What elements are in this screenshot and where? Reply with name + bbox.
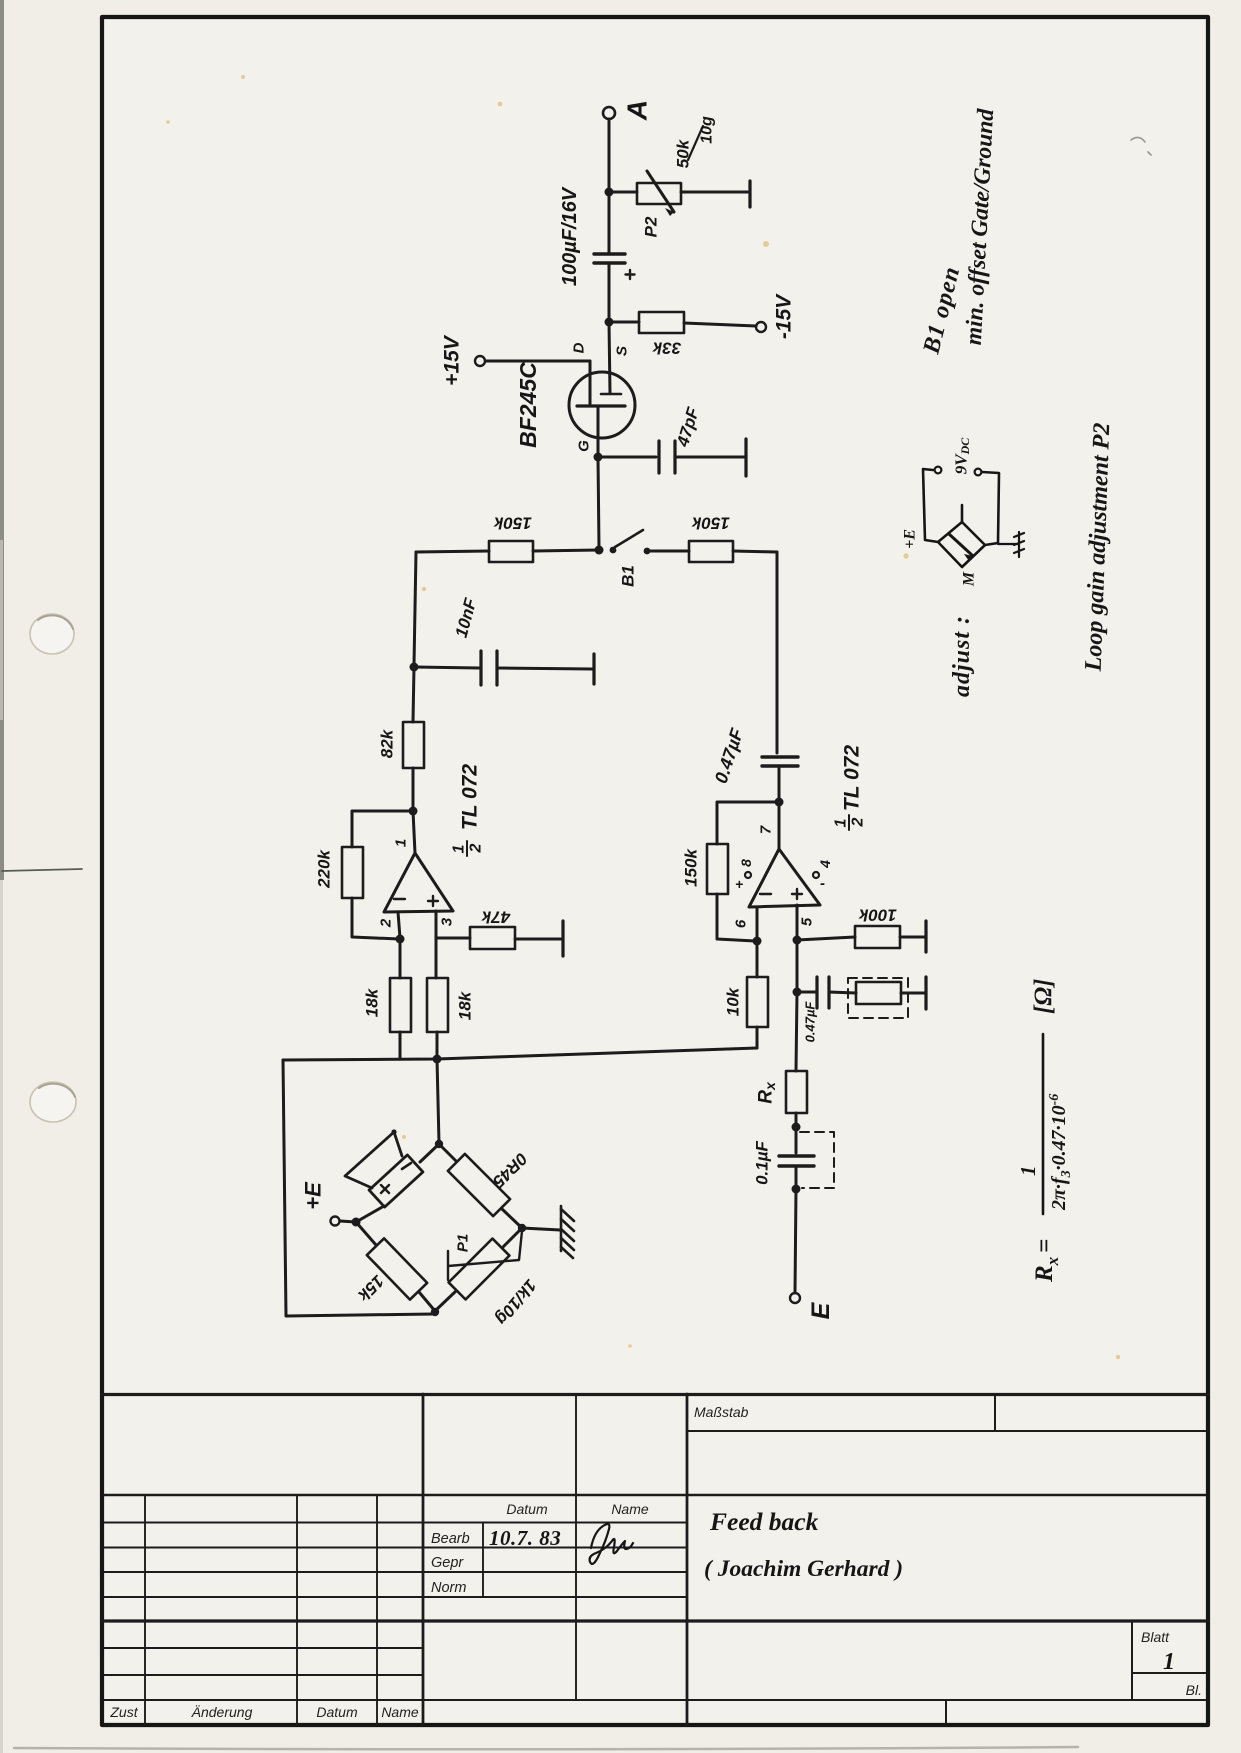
svg-text:Datum: Datum — [506, 1501, 548, 1517]
resistor 82k — [403, 722, 424, 768]
op-amp U2 — [749, 849, 820, 907]
ground bar 100k — [924, 921, 927, 952]
wire — [608, 119, 611, 190]
wire outer loop — [283, 1060, 434, 1316]
resistor 100k — [855, 926, 900, 948]
node bridge top — [435, 1140, 443, 1148]
svg-text:Blatt: Blatt — [1141, 1629, 1170, 1645]
resistor 0R45 — [448, 1154, 510, 1216]
capacitor 0.47uF optional — [815, 977, 818, 1008]
svg-text:10k: 10k — [724, 986, 743, 1016]
ground bar optional — [924, 977, 927, 1009]
svg-text:2π·f3·0.47·10-6: 2π·f3·0.47·10-6 — [1047, 1094, 1074, 1211]
svg-text:-: - — [820, 875, 825, 892]
wire — [609, 321, 639, 324]
wire — [756, 941, 759, 977]
resistor Rx — [786, 1071, 807, 1113]
svg-text:Name: Name — [381, 1704, 419, 1720]
wire — [756, 1027, 759, 1048]
node bridge bottom — [431, 1308, 439, 1316]
wire — [609, 191, 637, 194]
svg-text:5: 5 — [799, 917, 816, 926]
sensor element — [369, 1155, 423, 1207]
node junction — [410, 663, 419, 672]
svg-text:Name: Name — [611, 1501, 649, 1517]
svg-text:47k: 47k — [480, 908, 511, 927]
svg-text:G: G — [576, 440, 593, 452]
svg-text:B1: B1 — [619, 565, 638, 587]
svg-text:0.47µF: 0.47µF — [803, 1001, 818, 1043]
resistor 10k — [747, 977, 768, 1027]
svg-text:Maßstab: Maßstab — [694, 1404, 749, 1420]
ground bar 47pF — [744, 439, 747, 476]
svg-text:8: 8 — [738, 859, 754, 867]
svg-text:TL 072: TL 072 — [459, 764, 482, 830]
svg-text:82k: 82k — [378, 728, 397, 758]
TITLEBLOCK — [102, 1394, 1208, 1724]
op-amp U1 — [384, 853, 453, 912]
punch hole bottom — [30, 1082, 76, 1122]
node junction — [792, 1185, 801, 1194]
bridge 15k arm wire — [356, 1222, 435, 1311]
svg-text:7: 7 — [758, 825, 775, 834]
svg-text:Norm: Norm — [431, 1580, 466, 1596]
wire feedback U1 — [352, 811, 413, 847]
wire — [901, 992, 924, 995]
wire — [684, 323, 756, 326]
wire loop — [923, 469, 938, 542]
wire — [416, 551, 489, 552]
node junction U2 out — [775, 798, 784, 807]
formula Rx — [1016, 979, 1074, 1283]
wire — [795, 1189, 796, 1293]
svg-text:18k: 18k — [363, 987, 382, 1017]
wire — [598, 456, 656, 459]
bridge sensor arm wire — [356, 1144, 439, 1222]
wire — [829, 992, 856, 993]
wire — [608, 263, 611, 320]
wire feedback U2 — [717, 802, 779, 844]
wire — [797, 991, 815, 994]
wire — [795, 1113, 798, 1126]
svg-text:+: + — [735, 876, 743, 892]
ground bar 47k — [561, 921, 564, 956]
resistor 150k right — [689, 541, 733, 562]
svg-text:Zust: Zust — [109, 1704, 138, 1720]
wire — [900, 936, 924, 939]
node junction — [433, 1055, 442, 1064]
svg-text:Gepr: Gepr — [431, 1555, 464, 1571]
U2 label 1/2 TL072 — [833, 745, 867, 828]
svg-text:220k: 220k — [315, 849, 334, 889]
svg-text:1: 1 — [833, 818, 850, 827]
svg-text:1: 1 — [451, 844, 468, 853]
wire — [436, 937, 470, 940]
svg-text:10.7. 83: 10.7. 83 — [489, 1526, 561, 1550]
svg-text:Datum: Datum — [316, 1704, 358, 1720]
capacitor 0.47uF — [762, 755, 798, 758]
pin 4 supply — [813, 872, 819, 878]
transistor Q1 BF245C — [569, 372, 635, 438]
punch hole top — [30, 614, 74, 654]
svg-text:-15V: -15V — [773, 293, 796, 339]
svg-text:BF245C: BF245C — [515, 362, 541, 448]
resistor 150k fb — [707, 844, 728, 894]
svg-text:P1: P1 — [455, 1234, 472, 1252]
svg-text:+E: +E — [902, 529, 919, 549]
svg-text:2: 2 — [468, 843, 485, 853]
capacitor C1 100uF/16V — [594, 252, 625, 255]
signature — [590, 1524, 633, 1564]
adjust sketch — [902, 437, 1025, 587]
terminal A — [603, 107, 615, 119]
ground sketch — [998, 532, 1024, 557]
resistor optional dashed — [856, 982, 901, 1004]
terminal E — [790, 1293, 800, 1303]
faint scan squiggle top right — [1131, 137, 1151, 155]
svg-text:4: 4 — [817, 860, 833, 869]
scan edge strip left — [0, 0, 4, 880]
terminal +E — [331, 1217, 340, 1226]
node +E sketch — [902, 529, 919, 549]
bridge 0R45 arm wire — [439, 1144, 522, 1228]
wire gate down — [598, 457, 599, 548]
wire — [650, 550, 689, 553]
resistor 150k left — [489, 541, 533, 562]
wire — [412, 768, 415, 809]
svg-text:P2: P2 — [642, 216, 661, 237]
wire — [399, 1032, 402, 1058]
node gate junction — [594, 453, 603, 462]
svg-text:1: 1 — [393, 839, 410, 847]
svg-text:10g: 10g — [699, 116, 716, 144]
node junction pin2 — [396, 935, 405, 944]
wire — [681, 191, 748, 194]
U1 label 1/2 TL072 — [451, 764, 485, 854]
svg-text:50k: 50k — [674, 138, 693, 168]
wire bus horizontal — [283, 1048, 757, 1060]
node bridge left — [352, 1218, 361, 1227]
svg-text:D: D — [571, 342, 588, 353]
resistor 47k — [470, 927, 515, 949]
svg-text:100µF/16V: 100µF/16V — [559, 186, 581, 286]
node junction pin6 — [753, 937, 762, 946]
svg-text:adjust :: adjust : — [949, 615, 975, 697]
ground bar 10nF — [592, 654, 595, 684]
svg-text:150k: 150k — [682, 848, 701, 887]
ground bar P2 — [748, 181, 751, 207]
wire — [413, 667, 414, 722]
wire — [399, 939, 402, 978]
node bridge right — [518, 1224, 526, 1232]
wire S lead — [609, 322, 610, 393]
node junction — [595, 546, 604, 555]
node junction pin5 — [793, 936, 802, 945]
svg-text:Bl.: Bl. — [1186, 1682, 1202, 1698]
sensor horn — [345, 1132, 402, 1188]
resistor 15k — [367, 1238, 427, 1299]
dashed box 0.1uF — [800, 1132, 834, 1188]
svg-text:S: S — [614, 346, 631, 356]
svg-text:( Joachim Gerhard ): ( Joachim Gerhard ) — [704, 1556, 903, 1582]
svg-text:+15V: +15V — [441, 334, 464, 386]
wire bridge stem — [437, 1059, 439, 1143]
resistor 220k — [342, 847, 363, 898]
wire — [796, 940, 799, 990]
node junction — [409, 807, 418, 816]
svg-text:2: 2 — [378, 918, 395, 928]
capacitor 47pF — [657, 441, 660, 473]
node junction — [605, 318, 614, 327]
svg-text:0.1µF: 0.1µF — [753, 1140, 772, 1184]
wire — [414, 667, 479, 668]
pin 8 supply — [745, 872, 751, 878]
potentiometer P1 — [449, 1239, 510, 1300]
svg-text:Feed back: Feed back — [709, 1507, 819, 1536]
wire — [733, 551, 777, 552]
svg-text:M: M — [961, 571, 978, 587]
wire — [796, 992, 797, 1071]
capacitor 0.1uF — [795, 1127, 798, 1153]
svg-text:2: 2 — [850, 817, 867, 827]
svg-text:3: 3 — [439, 917, 456, 926]
wire — [797, 937, 855, 940]
wire — [352, 898, 399, 939]
terminal +15V — [475, 356, 485, 366]
SCHEM-RIGHT — [437, 725, 926, 1319]
wire — [436, 1032, 439, 1058]
wire — [717, 894, 755, 941]
svg-text:E: E — [807, 1301, 835, 1319]
svg-text:TL 072: TL 072 — [841, 745, 864, 811]
bridge P1 arm wire — [435, 1228, 522, 1311]
wire — [497, 668, 592, 669]
svg-text:18k: 18k — [456, 990, 475, 1020]
svg-text:150k: 150k — [493, 514, 532, 533]
ANNOTATIONS — [918, 107, 1115, 697]
wire D lead — [486, 360, 590, 363]
node junction — [793, 988, 802, 997]
wire — [675, 456, 744, 459]
svg-text:Bearb: Bearb — [431, 1531, 470, 1547]
terminal 9V left — [935, 467, 942, 474]
svg-text:+E: +E — [301, 1181, 326, 1210]
paper speckles — [166, 75, 1120, 1359]
svg-text:100k: 100k — [858, 906, 897, 925]
wire — [533, 550, 599, 551]
node junction — [605, 188, 614, 197]
wire — [778, 766, 781, 800]
ground hatched — [522, 1228, 560, 1230]
wire — [435, 938, 438, 978]
wire — [608, 192, 611, 253]
resistor 33k — [639, 312, 684, 333]
capacitor 10nF — [479, 651, 482, 685]
bottom scan shadow — [14, 1747, 1078, 1749]
switch B1 — [610, 547, 617, 554]
fold mark — [2, 869, 82, 871]
svg-text:[Ω]: [Ω] — [1030, 979, 1057, 1014]
terminal -15V — [756, 322, 766, 332]
node junction — [792, 1123, 801, 1132]
svg-text:1: 1 — [1163, 1649, 1175, 1675]
svg-text:150k: 150k — [691, 514, 730, 533]
svg-text:A: A — [622, 100, 653, 121]
svg-text:1: 1 — [1016, 1166, 1040, 1177]
svg-text:33k: 33k — [651, 339, 681, 358]
potentiometer P2 — [637, 183, 681, 204]
wire left column down — [414, 552, 416, 665]
resistor 18k left — [390, 978, 411, 1032]
wire — [515, 938, 561, 941]
meter M bridge — [938, 522, 985, 567]
resistor 18k right — [427, 978, 448, 1032]
svg-text:6: 6 — [733, 919, 750, 928]
wire right column down — [776, 552, 779, 753]
svg-text:Änderung: Änderung — [191, 1704, 253, 1720]
terminal 9V right — [975, 469, 982, 476]
